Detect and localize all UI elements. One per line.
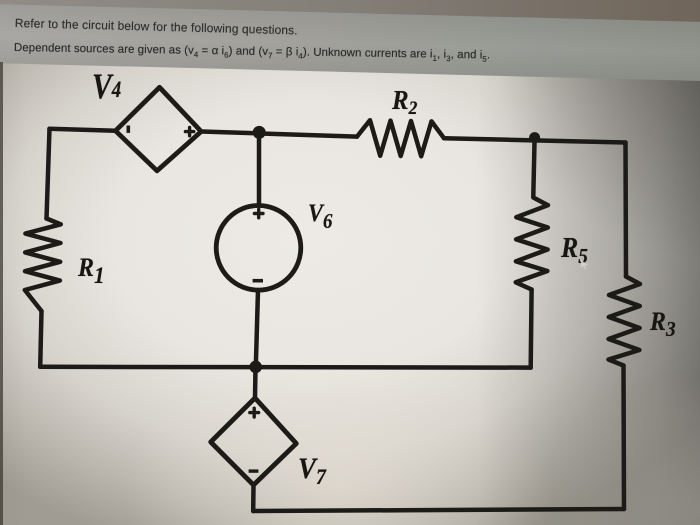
wire node B down to R5 — [533, 138, 534, 197]
wire right vertical upper (node B corner down to R3) — [623, 143, 628, 277]
node C junction dot — [249, 361, 262, 374]
wire right vertical lower (R3 to bottom-right corner) — [621, 366, 626, 510]
wire node C to V7 top — [253, 367, 258, 398]
label R1 — [78, 255, 105, 287]
wire left vertical upper (corner to R1) — [47, 129, 50, 219]
label R5 — [561, 235, 588, 267]
V6 minus mark — [253, 279, 263, 283]
wire R2 to top-right corner through node B — [444, 138, 626, 142]
dependent source V7 (diamond) — [211, 398, 297, 485]
node B junction dot — [529, 132, 540, 143]
node A junction dot — [253, 126, 266, 139]
V7 minus mark — [249, 469, 259, 472]
resistor R1 — [25, 219, 61, 312]
label R2 — [392, 87, 417, 118]
wire node A down to V6 top — [257, 131, 262, 206]
V4 plus mark — [185, 127, 193, 135]
wire outer bottom — [253, 509, 624, 511]
voltage source V6 (circle) — [216, 206, 301, 291]
wire V4 to R2 through node A — [201, 132, 357, 137]
resistor R3 — [609, 277, 641, 366]
resistor R5 — [516, 198, 548, 290]
V4 minus mark — [127, 126, 131, 133]
wire R5 bottom to inner bottom wire — [528, 290, 533, 368]
V7 plus mark — [250, 408, 259, 417]
label V7 — [298, 454, 326, 488]
V6 plus mark — [254, 209, 263, 218]
dependent source V4 (diamond) — [116, 87, 202, 171]
wire left vertical lower (R1 to bottom-left corner) — [40, 311, 41, 367]
wire V7 bottom stub — [251, 485, 256, 511]
cursor artifact near R5 — [581, 260, 588, 269]
wire top-left horizontal — [50, 129, 116, 131]
label R3 — [650, 309, 676, 340]
label V4 — [92, 68, 121, 104]
resistor R2 — [357, 120, 444, 156]
label V6 — [308, 201, 332, 232]
wire V6 bottom to node C — [256, 290, 258, 367]
wire inner bottom — [40, 365, 531, 370]
